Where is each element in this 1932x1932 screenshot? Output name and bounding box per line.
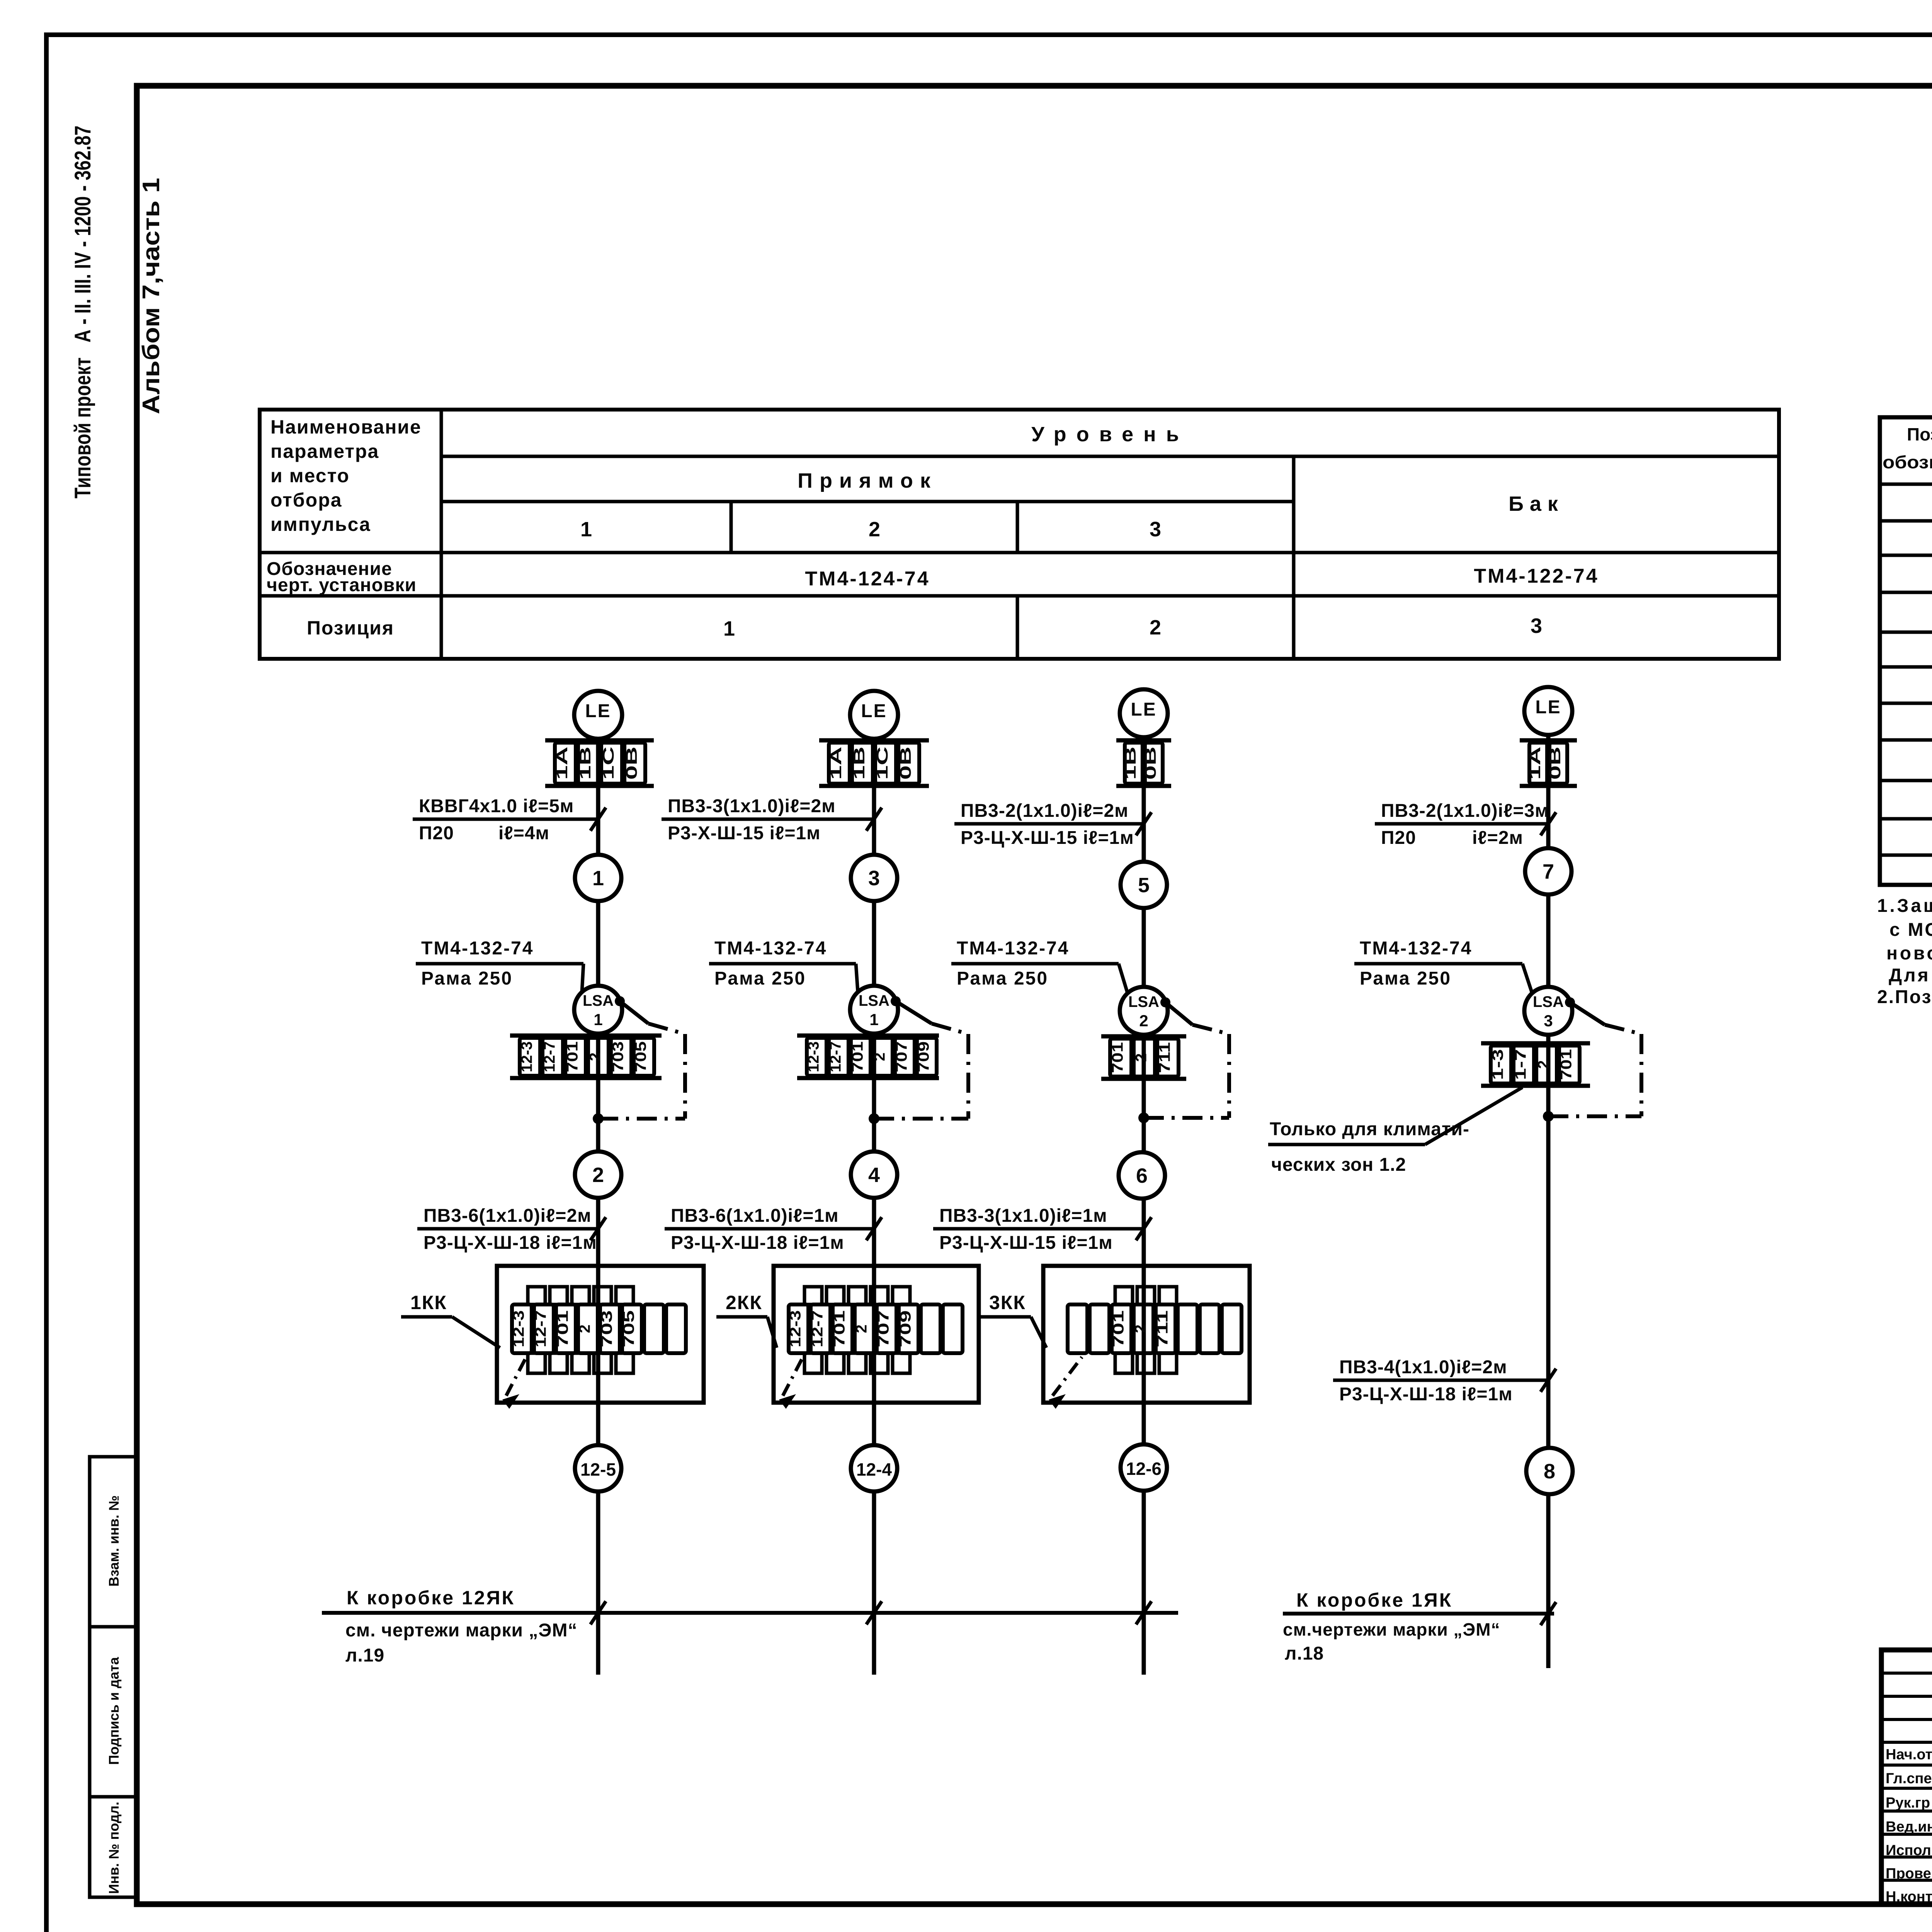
svg-text:1: 1 — [869, 1010, 878, 1029]
svg-text:Н.контр.: Н.контр. — [1886, 1889, 1932, 1905]
svg-text:0В: 0В — [897, 747, 914, 780]
terminal box strip col1 under LSA — [510, 1036, 662, 1078]
level switch LSA 1 — [850, 986, 898, 1034]
svg-text:12-5: 12-5 — [580, 1459, 616, 1480]
level transmitter col1 (LE circle) — [574, 691, 622, 739]
svg-text:1В: 1В — [1122, 747, 1139, 780]
terminal box strip col2 under LSA — [797, 1036, 939, 1078]
title block frame — [1881, 1650, 1932, 1904]
svg-text:Приямок: Приямок — [798, 469, 937, 492]
svg-text:2: 2 — [1535, 1060, 1552, 1069]
svg-text:2: 2 — [577, 1325, 594, 1333]
svg-text:черт. установки: черт. установки — [267, 575, 417, 595]
node circle 12-5 — [575, 1445, 621, 1492]
frame ground dash-dot link from LSA to wire junction — [598, 996, 685, 1119]
svg-text:1: 1 — [594, 1010, 602, 1029]
note label: только для климатических зон 1.2 — [1268, 1087, 1522, 1175]
svg-text:ТМ4-122-74: ТМ4-122-74 — [1474, 565, 1599, 587]
svg-text:iℓ=4м: iℓ=4м — [498, 823, 549, 844]
svg-text:0В: 0В — [1142, 747, 1159, 780]
note 1 about protective grounding — [1877, 896, 1932, 986]
stamp: Типовой проект А-II.III.IV-1200-362.87 — [70, 126, 95, 498]
svg-text:2: 2 — [1133, 1053, 1150, 1062]
svg-text:2: 2 — [1132, 1325, 1149, 1333]
svg-text:709: 709 — [897, 1310, 914, 1347]
svg-text:5: 5 — [1138, 874, 1150, 897]
svg-text:LSA: LSA — [859, 992, 889, 1009]
svg-text:707: 707 — [893, 1041, 910, 1072]
svg-text:703: 703 — [610, 1041, 627, 1072]
junction box 3КК — [1043, 1266, 1250, 1403]
junction box 1КК — [497, 1266, 704, 1403]
installation label ТМ4-132-74 / Рама 250 — [709, 938, 858, 992]
level switch LSA 3 — [1524, 987, 1572, 1035]
svg-text:1С: 1С — [600, 747, 617, 780]
svg-text:1-3: 1-3 — [1490, 1049, 1507, 1080]
svg-text:705: 705 — [633, 1041, 650, 1072]
svg-text:701: 701 — [554, 1310, 571, 1347]
junction dot on wire — [869, 1113, 879, 1124]
svg-text:Типовой проект А - II. III.: Типовой проект А - II. III. IV - 1200 - … — [70, 126, 95, 498]
svg-text:12-6: 12-6 — [1126, 1459, 1162, 1479]
svg-text:3: 3 — [1531, 614, 1542, 638]
node circle 12-4 — [851, 1445, 897, 1492]
svg-text:см.чертежи марки „ЭМ“: см.чертежи марки „ЭМ“ — [1283, 1619, 1500, 1639]
terminal box strip col1 1A/1B/1C/0B — [545, 740, 654, 786]
svg-text:1А: 1А — [1527, 747, 1544, 780]
svg-text:LSA: LSA — [583, 992, 614, 1009]
stamp: Альбом 7, часть 1 — [138, 178, 165, 414]
level transmitter col4 (LE circle) — [1524, 687, 1572, 735]
terminal box strip col4 under LSA — [1481, 1043, 1590, 1086]
svg-text:12-7: 12-7 — [827, 1041, 844, 1072]
svg-text:0В: 0В — [1547, 747, 1564, 780]
svg-text:Взам. инв. №: Взам. инв. № — [106, 1495, 122, 1587]
svg-text:Рама 250: Рама 250 — [421, 968, 513, 989]
title block signatories — [1886, 1744, 1932, 1905]
level transmitter col2 (LE circle) — [850, 691, 898, 739]
svg-text:1: 1 — [592, 867, 604, 890]
svg-text:Подпись и дата: Подпись и дата — [106, 1657, 122, 1765]
svg-text:4: 4 — [868, 1163, 880, 1187]
level switch LSA 2 — [1120, 987, 1168, 1035]
grounding arrow inside 2КК — [779, 1357, 803, 1409]
svg-text:711: 711 — [1156, 1042, 1173, 1073]
terminal assembly inside 2КК — [787, 1287, 963, 1373]
svg-text:703: 703 — [599, 1310, 616, 1347]
svg-text:ПВ3-3(1х1.0)iℓ=2м: ПВ3-3(1х1.0)iℓ=2м — [668, 796, 836, 816]
svg-text:12-3: 12-3 — [519, 1041, 536, 1072]
svg-text:701: 701 — [564, 1041, 581, 1072]
svg-text:Рама 250: Рама 250 — [957, 968, 1048, 989]
svg-text:Рама 250: Рама 250 — [714, 968, 806, 989]
svg-text:ТМ4-124-74: ТМ4-124-74 — [805, 568, 930, 590]
svg-text:Рук.гр: Рук.гр — [1886, 1795, 1930, 1811]
svg-text:LSA: LSA — [1533, 993, 1564, 1010]
terminal box strip col3 under LSA — [1101, 1036, 1186, 1079]
cable label ПВ3-3(1х1.0)i&#8467;=1м / Р3-Ц-Х-Ш-15 i&#8467;=1м — [933, 1206, 1151, 1253]
installation label ТМ4-132-74 / Рама 250 — [416, 938, 583, 992]
cable label ПВ3-2(1х1.0)i&#8467;=2м / Р3-Ц-Х-Ш-15 i&#8467;=1м — [954, 801, 1151, 848]
frame ground dash-dot link from LSA to wire junction — [1548, 997, 1641, 1116]
svg-text:Провер.: Провер. — [1886, 1866, 1932, 1882]
svg-text:1: 1 — [580, 518, 592, 541]
svg-text:1КК: 1КК — [410, 1292, 447, 1313]
node circle 4 — [851, 1151, 897, 1198]
svg-text:л.18: л.18 — [1285, 1643, 1324, 1664]
svg-text:Инв. № подл.: Инв. № подл. — [106, 1802, 122, 1894]
svg-text:709: 709 — [915, 1041, 932, 1072]
svg-text:LE: LE — [1535, 697, 1561, 718]
svg-text:0В: 0В — [623, 747, 640, 780]
grounding arrow inside 3КК — [1049, 1357, 1082, 1409]
svg-text:см. чертежи марки „ЭМ“: см. чертежи марки „ЭМ“ — [345, 1620, 577, 1641]
svg-text:2КК: 2КК — [726, 1292, 762, 1313]
svg-text:Исполн.: Исполн. — [1886, 1842, 1932, 1859]
note 2 about instrument positions — [1877, 987, 1932, 1007]
svg-text:П20: П20 — [419, 823, 454, 844]
svg-text:LE: LE — [585, 701, 611, 721]
svg-text:Р3-Х-Ш-15 iℓ=1м: Р3-Х-Ш-15 iℓ=1м — [668, 823, 821, 844]
svg-text:К коробке 12ЯК: К коробке 12ЯК — [347, 1587, 515, 1609]
node circle 2 — [575, 1151, 621, 1198]
svg-text:1.Защитное заземление систем а: 1.Защитное заземление систем автоматизац… — [1877, 896, 1932, 916]
svg-text:1: 1 — [723, 617, 735, 640]
terminal box strip col3 1B/0B — [1116, 740, 1171, 786]
installation label ТМ4-132-74 / Рама 250 — [1354, 938, 1532, 993]
svg-text:701: 701 — [849, 1041, 866, 1072]
svg-text:1А: 1А — [828, 747, 845, 780]
svg-text:ческих зон 1.2: ческих зон 1.2 — [1271, 1155, 1406, 1175]
svg-text:КВВГ4х1.0 iℓ=5м: КВВГ4х1.0 iℓ=5м — [419, 796, 574, 816]
svg-text:701: 701 — [831, 1310, 848, 1347]
svg-text:711: 711 — [1154, 1310, 1171, 1347]
svg-text:отбора: отбора — [270, 489, 342, 511]
cable label ПВ3-6(1х1.0)i&#8467;=1м / Р3-Ц-Х-Ш-18 i&#8467;=1м — [665, 1206, 882, 1253]
svg-text:ТМ4-132-74: ТМ4-132-74 — [957, 938, 1069, 959]
svg-text:12-7: 12-7 — [809, 1310, 826, 1347]
svg-text:ПВ3-6(1х1.0)iℓ=2м: ПВ3-6(1х1.0)iℓ=2м — [423, 1206, 592, 1226]
specification table frame — [1880, 417, 1932, 885]
junction box 2КК — [774, 1266, 979, 1403]
level switch LSA 1 — [574, 986, 622, 1034]
svg-text:ТМ4-132-74: ТМ4-132-74 — [1360, 938, 1472, 959]
svg-text:обознач.: обознач. — [1883, 452, 1932, 472]
svg-text:iℓ=2м: iℓ=2м — [1472, 828, 1523, 848]
node circle 5 — [1121, 862, 1167, 908]
svg-text:и место: и место — [270, 465, 350, 486]
svg-text:параметра: параметра — [270, 440, 379, 462]
svg-text:2: 2 — [869, 518, 880, 541]
svg-text:701: 701 — [1558, 1049, 1575, 1080]
terminal assembly inside 3КК — [1068, 1287, 1242, 1373]
svg-text:Поз.: Поз. — [1907, 424, 1932, 444]
cable label ПВ3-2(1х1.0)i&#8467;=3м / ('П20', 'i&#8467;=2м', 3810) — [1375, 801, 1556, 848]
svg-text:ПВ3-6(1х1.0)iℓ=1м: ПВ3-6(1х1.0)iℓ=1м — [671, 1206, 839, 1226]
svg-text:LE: LE — [1131, 699, 1156, 720]
svg-text:Наименование: Наименование — [270, 416, 422, 438]
svg-text:Вед.инж.: Вед.инж. — [1886, 1819, 1932, 1835]
svg-text:2.Позиции приборов указаны по: 2.Позиции приборов указаны по спецификац… — [1877, 987, 1932, 1007]
svg-text:ПВ3-2(1х1.0)iℓ=3м: ПВ3-2(1х1.0)iℓ=3м — [1381, 801, 1549, 821]
svg-text:1С: 1С — [874, 747, 891, 780]
terminal box strip col2 1A/1B/1C/0B — [819, 740, 929, 786]
svg-text:7: 7 — [1543, 860, 1554, 883]
svg-text:3КК: 3КК — [989, 1292, 1026, 1313]
svg-text:LSA: LSA — [1128, 993, 1159, 1010]
svg-text:Р3-Ц-Х-Ш-18 iℓ=1м: Р3-Ц-Х-Ш-18 iℓ=1м — [423, 1233, 597, 1253]
svg-text:Р3-Ц-Х-Ш-18 iℓ=1м: Р3-Ц-Х-Ш-18 iℓ=1м — [671, 1233, 844, 1253]
svg-text:1В: 1В — [577, 747, 594, 780]
svg-text:Для заземления использовать ну: Для заземления использовать нулевые жилы… — [1889, 965, 1932, 986]
junction dot on wire — [593, 1113, 604, 1124]
svg-text:ПВ3-2(1х1.0)iℓ=2м: ПВ3-2(1х1.0)iℓ=2м — [961, 801, 1129, 821]
svg-text:Р3-Ц-Х-Ш-15 iℓ=1м: Р3-Ц-Х-Ш-15 iℓ=1м — [939, 1233, 1113, 1253]
svg-text:ТМ4-132-74: ТМ4-132-74 — [714, 938, 827, 959]
frame ground dash-dot link from LSA to wire junction — [874, 996, 968, 1119]
svg-text:12-3: 12-3 — [805, 1041, 822, 1072]
svg-text:Р3-Ц-Х-Ш-18 iℓ=1м: Р3-Ц-Х-Ш-18 iℓ=1м — [1339, 1384, 1513, 1405]
svg-text:ПВ3-4(1х1.0)iℓ=2м: ПВ3-4(1х1.0)iℓ=2м — [1339, 1357, 1507, 1378]
svg-text:3: 3 — [868, 867, 880, 890]
bus to junction box 12ЯК — [322, 1587, 1178, 1666]
installation label ТМ4-132-74 / Рама 250 — [951, 938, 1128, 993]
svg-text:2: 2 — [871, 1053, 888, 1061]
frame ground dash-dot link from LSA to wire junction — [1144, 997, 1229, 1118]
svg-text:2: 2 — [853, 1325, 870, 1333]
node circle 7 — [1525, 848, 1571, 895]
terminal assembly inside 1КК — [510, 1287, 686, 1373]
node circle 8 — [1526, 1448, 1573, 1494]
svg-text:1В: 1В — [851, 747, 868, 780]
svg-text:Рама 250: Рама 250 — [1360, 968, 1451, 989]
svg-text:701: 701 — [1109, 1042, 1126, 1073]
svg-text:3: 3 — [1544, 1012, 1553, 1030]
cable label КВВГ4х1.0&#160;i&#8467;=5м / ('П20', 'i&#8467;=4м', 1290) — [413, 796, 606, 844]
svg-text:8: 8 — [1544, 1460, 1555, 1483]
level transmitter col3 (LE circle) — [1120, 689, 1168, 737]
svg-text:с МСН-205-84 ММ СС СССР „Инстр: с МСН-205-84 ММ СС СССР „Инструкция по п… — [1889, 920, 1932, 940]
svg-text:ТМ4-132-74: ТМ4-132-74 — [421, 938, 534, 959]
node circle 6 — [1119, 1152, 1165, 1199]
svg-text:2: 2 — [587, 1053, 604, 1061]
svg-text:2: 2 — [1139, 1012, 1148, 1030]
cable label ПВ3-6(1х1.0)i&#8467;=2м / Р3-Ц-Х-Ш-18 i&#8467;=1м — [417, 1206, 606, 1253]
left margin cells: Взам.инв.№ / Подпись и дата / Инв.№ подл. — [90, 1457, 137, 1897]
svg-text:707: 707 — [875, 1310, 892, 1347]
svg-text:П20: П20 — [1381, 828, 1416, 848]
svg-text:Бак: Бак — [1509, 492, 1564, 515]
svg-text:LE: LE — [861, 701, 887, 721]
svg-text:Уровень: Уровень — [1031, 423, 1189, 446]
svg-text:Р3-Ц-Х-Ш-15 iℓ=1м: Р3-Ц-Х-Ш-15 iℓ=1м — [961, 828, 1134, 848]
svg-text:2: 2 — [592, 1163, 604, 1187]
svg-text:Альбом 7,часть 1: Альбом 7,часть 1 — [138, 178, 165, 414]
svg-text:12-4: 12-4 — [856, 1459, 892, 1480]
svg-text:12-3: 12-3 — [510, 1310, 527, 1347]
wire column 4 (position 8 run) — [1546, 735, 1551, 1668]
svg-text:6: 6 — [1136, 1164, 1148, 1187]
junction dot on wire — [1138, 1112, 1149, 1123]
svg-text:12-3: 12-3 — [787, 1310, 804, 1347]
svg-text:Нач.отд.: Нач.отд. — [1886, 1747, 1932, 1763]
parameter table frame — [260, 410, 1779, 659]
node circle 12-6 — [1121, 1444, 1167, 1491]
svg-text:2: 2 — [1150, 616, 1161, 639]
bus to junction box 1ЯК — [1283, 1589, 1556, 1664]
svg-text:12-7: 12-7 — [541, 1041, 558, 1072]
wire column 2 (position 12-4 run) — [872, 739, 876, 1675]
cable label ПВ3-3(1х1.0)i&#8467;=2м / Р3-Х-Ш-15 i&#8467;=1м — [662, 796, 882, 844]
node circle 1 — [575, 855, 621, 901]
svg-text:ПВ3-3(1х1.0)iℓ=1м: ПВ3-3(1х1.0)iℓ=1м — [939, 1206, 1107, 1226]
svg-text:12-7: 12-7 — [532, 1310, 549, 1347]
specification table header — [1883, 424, 1932, 472]
svg-text:1А: 1А — [554, 747, 571, 780]
label 1КК — [401, 1292, 500, 1348]
label 3КК — [980, 1292, 1046, 1348]
terminal box strip col4 1A/0B — [1520, 740, 1577, 786]
svg-text:импульса: импульса — [270, 514, 371, 535]
wire column 1 (position 12-5 run) — [596, 739, 600, 1675]
junction dot on wire — [1543, 1111, 1554, 1122]
cable label ПВ3-4(1х1.0)i&#8467;=2м / Р3-Ц-Х-Ш-18 i&#8467;=1м — [1333, 1357, 1556, 1405]
parameter table header texts — [267, 416, 1599, 640]
wire column 3 (position 12-6 run) — [1142, 737, 1146, 1675]
svg-text:705: 705 — [621, 1310, 638, 1347]
svg-text:Гл.спец.: Гл.спец. — [1886, 1770, 1932, 1787]
node circle 3 — [851, 855, 897, 901]
svg-text:701: 701 — [1110, 1310, 1127, 1347]
svg-text:Позиция: Позиция — [307, 617, 394, 639]
label 2КК — [716, 1292, 777, 1348]
svg-text:3: 3 — [1150, 518, 1161, 541]
svg-text:л.19: л.19 — [345, 1645, 384, 1666]
grounding arrow inside 1КК — [502, 1357, 526, 1409]
svg-text:1-7: 1-7 — [1512, 1049, 1529, 1080]
svg-text:К коробке 1ЯК: К коробке 1ЯК — [1296, 1589, 1452, 1611]
